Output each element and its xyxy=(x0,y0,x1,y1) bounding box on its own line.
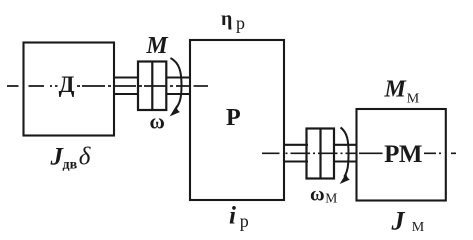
svg-text:М: М xyxy=(325,190,337,205)
motor block Д xyxy=(24,43,115,136)
rotation arrow ωм arc xyxy=(341,128,349,177)
svg-text:М: М xyxy=(412,220,425,235)
shaft segment (coupling to reducer) xyxy=(166,78,192,95)
svg-text:Р: Р xyxy=(226,105,241,131)
rotation arrow ωм head xyxy=(340,173,350,184)
svg-text:р: р xyxy=(240,211,249,231)
svg-text:дв: дв xyxy=(63,158,78,173)
svg-text:Д: Д xyxy=(59,72,75,97)
svg-text:ω: ω xyxy=(310,183,325,205)
coupling 1 divider xyxy=(151,62,153,111)
svg-text:i: i xyxy=(229,203,236,230)
svg-text:M: M xyxy=(145,33,169,59)
output centerline (dash-dot, from reducer through coupling to РМ) xyxy=(262,152,383,154)
svg-text:η: η xyxy=(221,8,232,30)
motor centerline dash inside reducer xyxy=(194,85,209,87)
motor centerline (dash-dot, left of letter Д) xyxy=(7,85,58,87)
svg-text:р: р xyxy=(236,13,245,33)
machine block РМ xyxy=(357,109,446,201)
output shaft segment (reducer to coupling) xyxy=(283,145,308,162)
motor shaft segment (Д to coupling) xyxy=(114,78,140,95)
rotation arrow ω arc xyxy=(171,58,182,109)
rotation arrow ω head xyxy=(170,105,180,116)
coupling 2 body xyxy=(307,129,335,179)
reducer block Р xyxy=(190,40,284,200)
output centerline (dash-dot, right of РМ) xyxy=(424,152,456,154)
svg-text:ω: ω xyxy=(150,110,165,134)
motor centerline (dash-dot, right of letter Д through coupling into reducer) xyxy=(77,85,190,87)
svg-text:δ: δ xyxy=(79,144,91,171)
shaft segment (coupling to РМ) xyxy=(333,145,358,162)
coupling 2 divider xyxy=(319,129,321,179)
svg-text:М: М xyxy=(407,92,420,107)
svg-text:РМ: РМ xyxy=(384,141,422,168)
svg-text:M: M xyxy=(384,77,408,103)
svg-text:J: J xyxy=(391,207,406,236)
coupling 1 body xyxy=(138,62,166,111)
